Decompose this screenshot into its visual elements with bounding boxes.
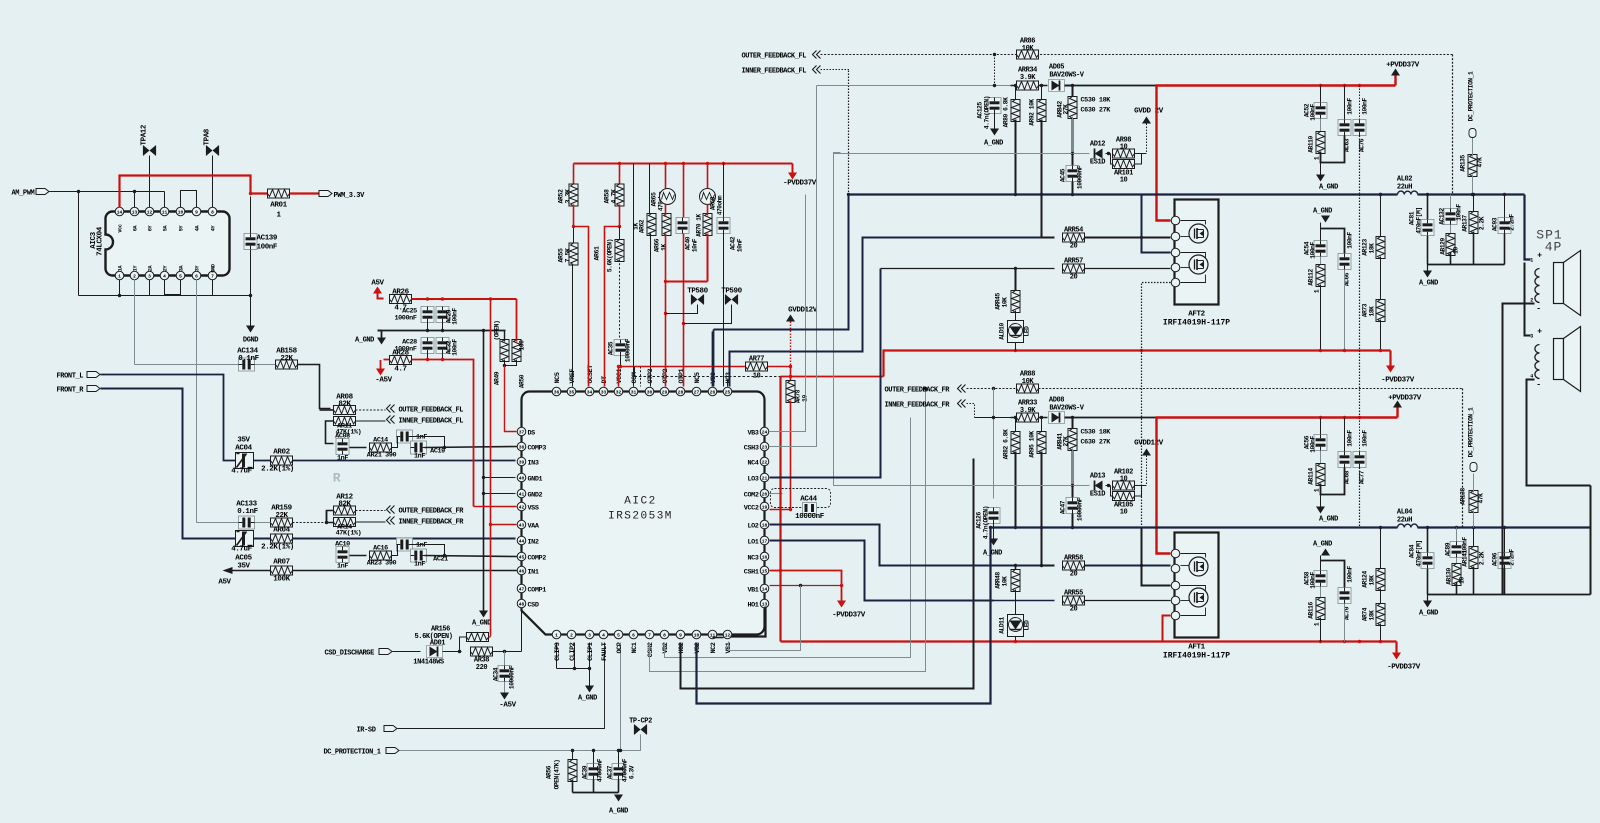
svg-text:20: 20 (1070, 571, 1078, 579)
svg-text:6.3V: 6.3V (629, 765, 636, 779)
svg-text:A_GND: A_GND (1319, 184, 1338, 192)
capacitor AC29 100nF (436, 307, 449, 323)
wire AC125 dotted drop (994, 55, 996, 86)
wire AR78 to VCC2 red (790, 401, 792, 510)
capacitor AC56 100nF (1320, 418, 1322, 435)
svg-text:NC5: NC5 (694, 372, 702, 383)
svg-text:AM_PWM: AM_PWM (12, 190, 35, 198)
wires AC52 cluster gnd (1321, 136, 1345, 163)
resistor ARB42 27K (1072, 86, 1074, 98)
svg-text:41: 41 (519, 491, 525, 497)
AIC2 pin 7 (CSH2) (645, 630, 654, 639)
speaker cone 1 (1554, 263, 1564, 304)
AIC2 pin 2 (CLIP2) (567, 630, 576, 639)
AIC2 pin 32 (VCC1) (614, 387, 623, 396)
wire VB3 grey (770, 195, 806, 432)
resistor AR07 100K (271, 566, 293, 575)
svg-text:5.6K(OPEN): 5.6K(OPEN) (607, 239, 614, 272)
resistor AR80 6.8K (1015, 86, 1017, 102)
svg-text:A_GND: A_GND (1419, 610, 1438, 618)
wire AD05 to gate node (1065, 86, 1073, 195)
wire inner row y85 (817, 85, 1011, 87)
wire red vertical x780 to bottom rail (779, 377, 781, 642)
svg-text:4.7uF: 4.7uF (231, 546, 252, 554)
wire red drop to AFT2 pin1 (1157, 86, 1171, 221)
wire jumper pins 4-5 (165, 280, 181, 295)
wire AM_PWM to pins 13/11 (50, 191, 165, 193)
svg-text:AR66: AR66 (654, 238, 661, 252)
wire top red rail y163 (574, 163, 793, 165)
wire VCC2 stub red (770, 509, 791, 511)
wire OCP down (620, 643, 622, 751)
resistor AR92 10K (1041, 86, 1043, 102)
test point TPA12 (149, 156, 151, 208)
wire comp2 row (350, 555, 367, 557)
svg-text:27K: 27K (1063, 436, 1070, 447)
svg-text:14: 14 (117, 209, 123, 215)
svg-text:74LCX04: 74LCX04 (97, 226, 105, 256)
svg-text:OCP: OCP (616, 642, 624, 653)
wire AFT2 pin5 dotted (1142, 283, 1171, 561)
svg-text:44: 44 (519, 538, 525, 544)
svg-text:4.7n(OPEN): 4.7n(OPEN) (983, 506, 990, 539)
power label +PVDD37V (1394, 76, 1396, 86)
svg-text:VB1: VB1 (747, 587, 758, 595)
svg-text:48: 48 (519, 601, 525, 607)
AIC2 pin 42 (VSS) (517, 502, 526, 511)
AIC2 pin 28 (OTP1) (676, 387, 685, 396)
svg-text:AC126: AC126 (976, 512, 983, 529)
resistor AR14 47K(1%) (334, 518, 356, 527)
svg-text:GVDD 2V: GVDD 2V (1134, 108, 1164, 116)
svg-text:GND: GND (211, 264, 217, 272)
capacitor AC54 100nF (1320, 223, 1322, 241)
svg-text:INNER_FEEDBACK_FR: INNER_FEEDBACK_FR (399, 519, 465, 527)
svg-text:5.6K(OPEN): 5.6K(OPEN) (414, 633, 452, 641)
resistor AR68 470ohm circle (700, 189, 716, 205)
svg-text:A5V: A5V (218, 579, 231, 587)
svg-text:14: 14 (762, 586, 768, 592)
svg-text:TP-CP2: TP-CP2 (629, 718, 652, 726)
svg-text:+: + (1537, 328, 1542, 337)
svg-text:FRONT_R: FRONT_R (57, 387, 85, 395)
AIC2 pin 46 (IN1) (517, 566, 526, 575)
capacitor AC132 100nF (1450, 195, 1452, 209)
wire AR66 to OTP2 red (665, 205, 667, 216)
mosfet AFT1-a (1189, 557, 1208, 576)
resistor AB130 10 (1456, 558, 1458, 567)
AIC2 pin 1 (CLIP3) (552, 630, 561, 639)
wire GVDD12V dotted red (790, 322, 792, 367)
svg-text:30: 30 (647, 389, 653, 395)
svg-text:GVDD12V: GVDD12V (1134, 440, 1164, 448)
svg-text:AC39: AC39 (582, 765, 589, 779)
wire VB2 grey loop (665, 418, 911, 658)
wire -PVDD37V bottom arrow (1395, 642, 1397, 653)
svg-text:+PVDD37V: +PVDD37V (1388, 395, 1422, 403)
AIC3 pin 13 (6A) (130, 207, 139, 216)
wire VS1 grey loop to VB1 (729, 586, 801, 651)
AIC2 pin 47 (COMP1) (517, 584, 526, 593)
svg-text:AFT2: AFT2 (1188, 311, 1205, 319)
AIC3 pin 8 (4Y) (208, 207, 217, 216)
ground A_GND AC56 (1316, 507, 1325, 514)
svg-text:A_GND: A_GND (472, 620, 491, 628)
wires CLIP pins down (556, 643, 558, 669)
svg-text:A_GND: A_GND (355, 337, 374, 345)
svg-text:HO1: HO1 (747, 602, 758, 610)
svg-text:VS2: VS2 (694, 642, 702, 653)
svg-text:8: 8 (663, 632, 666, 638)
svg-text:LED: LED (1024, 326, 1031, 337)
svg-text:COMP2: COMP2 (528, 555, 547, 563)
wires AFT2 internal (1181, 221, 1206, 225)
wire AC76 dotted down to bus (1359, 136, 1361, 195)
svg-text:DS: DS (528, 430, 536, 438)
wire IN2 row (254, 538, 271, 540)
svg-text:GND2: GND2 (528, 492, 543, 500)
resistor AR66 1K (665, 164, 667, 189)
svg-text:C530 18K: C530 18K (1081, 429, 1112, 437)
svg-text:AL04: AL04 (1397, 509, 1412, 517)
svg-text:AC21: AC21 (433, 556, 448, 564)
svg-text:21: 21 (762, 475, 768, 481)
svg-text:1: 1 (555, 632, 558, 638)
svg-text:+PVDD37V: +PVDD37V (1386, 62, 1420, 70)
svg-text:AR55: AR55 (558, 248, 565, 263)
capacitor AC35 10000nF (614, 340, 627, 356)
AIC2 pin 4 (FAULT) (599, 630, 608, 639)
svg-text:CSH2: CSH2 (647, 642, 655, 657)
svg-text:AR70 1K: AR70 1K (696, 213, 703, 236)
svg-text:AR78: AR78 (795, 389, 802, 403)
wire INNER_FEEDBACK_FL dotted vertical (848, 71, 850, 195)
net label INNER_FEEDBACK_FR (387, 517, 391, 525)
svg-text:AR95 10K: AR95 10K (1029, 431, 1036, 458)
svg-text:23: 23 (762, 444, 768, 450)
resistor AR74 18K (1380, 589, 1382, 607)
capacitor AC05 4.7uF 35V (236, 531, 254, 547)
resistor AR58 4.7K (619, 164, 621, 186)
AIC2 pin 19 (VCC2) (760, 502, 769, 511)
AIC2 pin 30 (OTP3) (645, 387, 654, 396)
svg-text:10K: 10K (1002, 297, 1009, 308)
svg-text:AB114: AB114 (1308, 468, 1315, 485)
capacitor AC44 element (803, 503, 817, 514)
transistor block AFT2 IRFI4019H-117P (1175, 200, 1219, 305)
svg-text:AD12: AD12 (1090, 141, 1105, 149)
svg-text:(OPEN): (OPEN) (494, 321, 501, 341)
svg-text:7: 7 (211, 273, 214, 279)
wire HO2 thick loop (681, 459, 974, 689)
svg-text:AR49: AR49 (494, 371, 501, 385)
svg-text:AC45: AC45 (1060, 168, 1067, 182)
svg-text:AR135: AR135 (1460, 155, 1467, 172)
AIC2 pin 29 (OTP2) (660, 387, 669, 396)
svg-text:AC96: AC96 (1492, 552, 1499, 566)
capacitor AC47 10000nF (1072, 486, 1074, 498)
AIC2 pin 36 (NC5) (552, 387, 561, 396)
wire ARB41 down to AC47 node (1072, 449, 1074, 486)
AIC2 pin 16 (NC3) (760, 552, 769, 561)
resistor AR01 1 (268, 189, 290, 198)
svg-text:47: 47 (519, 586, 525, 592)
svg-text:10000nF: 10000nF (509, 665, 516, 689)
svg-text:CLIP3: CLIP3 (554, 642, 562, 661)
net label INNER_FEEDBACK_FL (387, 416, 391, 424)
wire junction to AC139 and DGND (250, 197, 252, 326)
wire right edge vertical (1590, 486, 1592, 595)
wire AR52 to OCSET red (574, 205, 589, 387)
svg-text:22K: 22K (275, 512, 288, 520)
svg-text:1K: 1K (633, 223, 640, 230)
svg-text:34: 34 (587, 389, 593, 395)
wire IN1 to A5V arrow (293, 570, 518, 572)
wire AR58 to DT red (605, 205, 620, 387)
svg-text:-PVDD37V: -PVDD37V (1387, 664, 1421, 672)
svg-text:100nF: 100nF (1310, 436, 1317, 453)
wire VB1 dark (770, 585, 842, 587)
wire bus junction dots FR (1014, 526, 1017, 529)
svg-text:C630 27K: C630 27K (1081, 439, 1112, 447)
svg-text:+: + (1537, 252, 1542, 261)
svg-text:A_GND: A_GND (984, 140, 1003, 148)
wire OUTER_FR dashed (967, 388, 1463, 390)
svg-text:470nF[M]: 470nF[M] (1416, 207, 1423, 234)
svg-text:AR65: AR65 (651, 192, 658, 207)
svg-text:AC89: AC89 (1445, 542, 1452, 556)
AIC2 pin 20 (COM2) (760, 489, 769, 498)
wire jumper pins 10-9 (181, 191, 197, 208)
resistor AR124 18K (1380, 528, 1382, 572)
svg-text:FAULT: FAULT (601, 642, 609, 661)
svg-text:20: 20 (1070, 274, 1078, 282)
svg-text:6: 6 (632, 632, 635, 638)
svg-text:IRFI4019H-117P: IRFI4019H-117P (1163, 652, 1230, 661)
wire AR68 red to GVDD (707, 164, 709, 189)
wire ARR58 to AFT1 pin2 (1085, 565, 1171, 567)
resistor AR159 22K (271, 518, 293, 527)
wires comp2 cluster (392, 545, 399, 556)
wire terminal2 left-down (1503, 304, 1535, 595)
resistor AR95 10K (1041, 418, 1043, 434)
svg-text:Vcc: Vcc (118, 224, 124, 232)
svg-text:3.3K: 3.3K (565, 189, 572, 204)
svg-text:AR82 6.8K: AR82 6.8K (1003, 429, 1010, 460)
wire -PVDD37V top middle (792, 164, 794, 173)
svg-text:CLIP2: CLIP2 (569, 642, 577, 661)
svg-text:AB112: AB112 (1308, 269, 1315, 286)
svg-text:IRFI4019H-117P: IRFI4019H-117P (1163, 319, 1230, 328)
capacitor AC81 470nF[M] (1421, 220, 1434, 236)
svg-text:35V: 35V (237, 563, 250, 571)
wire navy LO1 to ARR55 (770, 541, 994, 601)
wire -PVDD37V mid arrow (841, 586, 843, 601)
wires AR49/AR50 (504, 331, 506, 342)
ground A_GND AC125 (990, 129, 999, 136)
AIC2 pin 37 (DS) (517, 427, 526, 436)
svg-text:10000nF: 10000nF (795, 513, 825, 521)
svg-text:AR50: AR50 (519, 374, 526, 388)
svg-text:1nF: 1nF (414, 453, 425, 461)
svg-text:2.2K(1%): 2.2K(1%) (261, 544, 294, 552)
ground A_GND AL02 area (1427, 265, 1429, 271)
AIC2 pin 11 (NC2) (708, 630, 717, 639)
svg-text:C630 27K: C630 27K (1081, 107, 1112, 115)
svg-text:-: - (1536, 305, 1540, 314)
svg-text:2: 2 (570, 632, 573, 638)
wire OUTER_FL dashed y54 (821, 54, 1453, 56)
svg-text:1nF: 1nF (414, 561, 425, 569)
svg-text:100nF: 100nF (257, 244, 278, 252)
svg-text:ES1D: ES1D (1090, 159, 1105, 167)
AIC2 pin 33 (DT) (599, 387, 608, 396)
svg-text:100nF: 100nF (1347, 232, 1354, 249)
svg-text:VB3: VB3 (747, 430, 758, 438)
wire red bottom rail to FR (781, 640, 1397, 642)
svg-text:IN3: IN3 (528, 460, 539, 468)
svg-text:9: 9 (195, 209, 198, 215)
wire INNER_FL dotted (821, 69, 850, 71)
coil speaker 1 (1535, 269, 1540, 303)
wire INNER_FR dotted (967, 404, 975, 418)
AIC2 pin 23 (CSH3) (760, 442, 769, 451)
capacitor AC45 10000nF (1072, 154, 1074, 166)
svg-text:HO2: HO2 (678, 642, 686, 653)
svg-text:1: 1 (118, 273, 121, 279)
svg-text:PWM_3.3V: PWM_3.3V (334, 192, 366, 200)
AIC2 pin 40 (GND1) (517, 473, 526, 482)
capacitor AC40 10nF (683, 164, 685, 218)
svg-text:100nF: 100nF (1347, 430, 1354, 447)
svg-text:AC47: AC47 (1060, 500, 1067, 514)
wire OUTER_FL down right (1452, 55, 1454, 195)
wires AR102/AR105 join (1111, 486, 1113, 497)
svg-text:ES1D: ES1D (1090, 491, 1105, 499)
svg-text:INNER_FEEDBACK_FR: INNER_FEEDBACK_FR (885, 402, 951, 410)
svg-text:ARR45: ARR45 (995, 293, 1002, 310)
wire vertical x1525 to terminal3 (1525, 263, 1531, 336)
wire Vcc red (120, 176, 319, 208)
resistor AB112 10 (1320, 257, 1322, 268)
AIC2 pin 38 (COMP3) (517, 442, 526, 451)
svg-text:OTP1: OTP1 (678, 368, 686, 383)
capacitor AC16 1nF (397, 538, 413, 551)
svg-text:39: 39 (519, 459, 525, 465)
svg-text:17: 17 (762, 538, 768, 544)
svg-text:37: 37 (519, 429, 525, 435)
svg-text:36: 36 (554, 389, 560, 395)
wire AR08/AR11 left joins (320, 409, 334, 411)
svg-text:20: 20 (1070, 243, 1078, 251)
svg-text:9: 9 (679, 632, 682, 638)
capacitor AC139 100nF (244, 234, 257, 250)
wire FRONT_L navy (101, 375, 237, 461)
svg-text:3: 3 (148, 273, 151, 279)
svg-text:4.7: 4.7 (394, 366, 406, 374)
svg-text:45: 45 (519, 554, 525, 560)
resistor AR105 10 (1113, 492, 1135, 501)
wire A_GND rail (378, 330, 506, 332)
AIC2 pin 34 (OCSET) (585, 387, 594, 396)
AIC2 pin 12 (VS1) (723, 630, 732, 639)
svg-text:TPA12: TPA12 (141, 124, 149, 145)
svg-text:AFT1: AFT1 (1188, 644, 1205, 652)
wire AC35 to red row (620, 356, 622, 367)
svg-text:22uH: 22uH (1397, 184, 1412, 192)
wire AC84 column (1427, 528, 1429, 595)
svg-text:VAA: VAA (528, 523, 540, 531)
AIC3 pin 14 (Vcc) (115, 207, 124, 216)
svg-text:43: 43 (519, 522, 525, 528)
svg-text:22uH: 22uH (1397, 517, 1412, 525)
wire AFT1 pin5 red (1163, 616, 1171, 642)
svg-text:10nF: 10nF (737, 238, 744, 252)
wire navy bus down to terminal 1 (1525, 195, 1531, 260)
capacitor AC44 10000nF dashed box (771, 489, 831, 508)
svg-text:AB130: AB130 (1446, 568, 1453, 585)
coil speaker 2 (1535, 345, 1540, 379)
wire AR159 to AR12 node (255, 522, 271, 524)
AIC3 pin 7 (GND) (208, 271, 217, 280)
svg-text:DC_PROTECTION_1: DC_PROTECTION_1 (1468, 71, 1475, 121)
wire COM2 stub (770, 493, 783, 495)
ground A_GND AC126 (989, 539, 998, 546)
wire bottom gnd rail (573, 792, 619, 794)
capacitor AC08 1nF (336, 439, 349, 455)
wire x1041 down to ARR58 row (1042, 528, 1055, 566)
svg-text:100nF: 100nF (452, 339, 459, 356)
capacitor AC84 470nF[M] (1421, 553, 1434, 569)
capacitor AC19 1nF (411, 441, 427, 454)
AIC2 pin 9 (HO2) (676, 630, 685, 639)
svg-text:AR141: AR141 (1462, 550, 1469, 567)
svg-text:COM2: COM2 (744, 492, 759, 500)
svg-text:DGND: DGND (243, 337, 258, 345)
svg-text:ALD11: ALD11 (999, 617, 1006, 634)
svg-text:VCC2: VCC2 (744, 505, 759, 513)
transistor block AFT1 IRFI4019H-117P (1175, 533, 1219, 638)
wire ARR55 row (994, 600, 1055, 602)
svg-text:AC35: AC35 (608, 341, 615, 355)
svg-text:AR80 6.8K: AR80 6.8K (1003, 97, 1010, 128)
svg-text:100nF: 100nF (1362, 430, 1369, 447)
wire navy bus y527 to speaker (991, 526, 1398, 528)
svg-text:GVDD12V: GVDD12V (788, 307, 818, 315)
svg-text:AL02: AL02 (1397, 176, 1412, 184)
wire navy LO3 to ARR57 (770, 269, 881, 478)
svg-text:18K: 18K (1369, 306, 1376, 317)
svg-text:18K: 18K (1369, 575, 1376, 586)
svg-text:100nF: 100nF (1362, 98, 1369, 115)
svg-text:27K: 27K (1063, 104, 1070, 115)
svg-text:18K: 18K (1369, 243, 1376, 254)
resistor AR50 100 (512, 340, 521, 362)
AIC2 pin 17 (LO1) (760, 536, 769, 545)
test point TPA8 (212, 156, 214, 208)
svg-text:10000nF: 10000nF (1077, 497, 1084, 521)
wire grey x833 GVDD2V down (834, 153, 841, 486)
resistor AR78 10 (790, 367, 792, 383)
wire CSH1 red (770, 571, 842, 586)
wire pin6 output down (196, 280, 198, 523)
capacitor AC58 100nF (1320, 556, 1322, 571)
svg-text:47000nF: 47000nF (622, 758, 629, 782)
wire IR-SD to FAULT (398, 643, 605, 729)
svg-text:VSS: VSS (528, 505, 539, 513)
svg-text:AR58: AR58 (604, 189, 611, 204)
svg-text:4.7uF: 4.7uF (231, 468, 252, 476)
